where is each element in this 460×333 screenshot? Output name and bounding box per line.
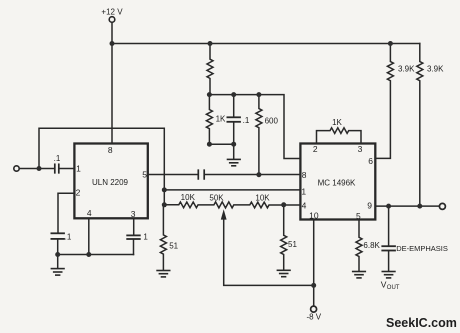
svg-text:+12 V: +12 V <box>101 7 123 16</box>
svg-text:1K: 1K <box>216 115 226 124</box>
svg-text:3.9K: 3.9K <box>427 64 444 73</box>
svg-text:SeekIC.com: SeekIC.com <box>386 316 457 330</box>
svg-text:2: 2 <box>313 144 318 154</box>
svg-text:3: 3 <box>131 209 136 219</box>
svg-text:8: 8 <box>108 145 113 155</box>
svg-text:DE-EMPHASIS: DE-EMPHASIS <box>396 244 448 253</box>
svg-text:3.9K: 3.9K <box>398 64 415 73</box>
svg-text:1: 1 <box>143 233 148 242</box>
svg-text:51: 51 <box>288 240 297 249</box>
svg-text:1: 1 <box>301 186 306 196</box>
svg-text:4: 4 <box>302 201 307 211</box>
svg-text:10K: 10K <box>181 193 196 202</box>
svg-text:-8 V: -8 V <box>306 313 321 322</box>
svg-text:6.8K: 6.8K <box>363 241 380 250</box>
svg-text:3: 3 <box>358 144 363 154</box>
svg-text:ULN 2209: ULN 2209 <box>92 178 129 187</box>
svg-text:6: 6 <box>368 156 373 166</box>
svg-text:5: 5 <box>142 170 147 180</box>
svg-text:50K: 50K <box>209 193 224 202</box>
svg-text:.1: .1 <box>54 154 61 163</box>
svg-text:600: 600 <box>265 116 279 125</box>
svg-text:10: 10 <box>309 211 319 221</box>
svg-text:.1: .1 <box>65 233 72 242</box>
svg-text:OUT: OUT <box>387 285 400 291</box>
svg-text:MC 1496K: MC 1496K <box>318 179 356 188</box>
svg-text:4: 4 <box>87 208 92 218</box>
svg-text:8: 8 <box>302 170 307 180</box>
svg-text:1: 1 <box>76 164 81 174</box>
svg-text:5: 5 <box>356 211 361 221</box>
svg-text:51: 51 <box>169 241 178 250</box>
svg-text:9: 9 <box>367 201 372 211</box>
svg-text:.1: .1 <box>243 116 250 125</box>
svg-text:10K: 10K <box>255 193 270 202</box>
svg-text:1K: 1K <box>332 118 342 127</box>
svg-text:2: 2 <box>76 188 81 198</box>
